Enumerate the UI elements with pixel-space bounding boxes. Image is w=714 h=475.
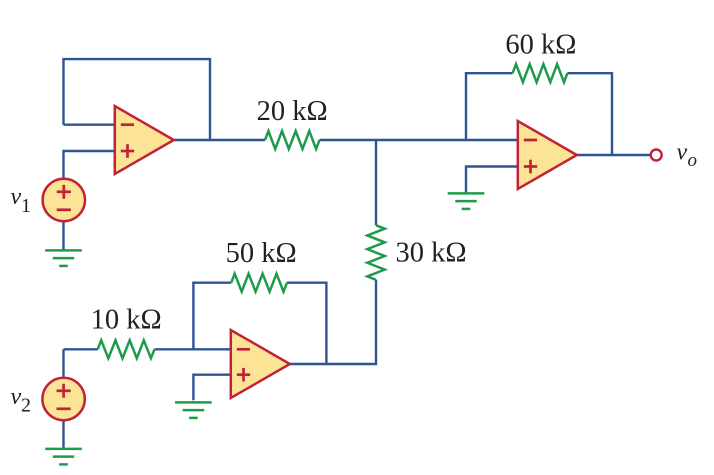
- svg-text:v: v: [11, 384, 22, 410]
- svg-text:30 kΩ: 30 kΩ: [396, 237, 467, 268]
- svg-text:20 kΩ: 20 kΩ: [257, 96, 328, 127]
- svg-text:1: 1: [21, 195, 31, 217]
- svg-text:o: o: [688, 150, 698, 171]
- svg-text:10 kΩ: 10 kΩ: [91, 304, 162, 335]
- svg-text:2: 2: [21, 395, 31, 417]
- svg-text:v: v: [677, 140, 688, 166]
- svg-text:60 kΩ: 60 kΩ: [505, 30, 576, 61]
- svg-text:v: v: [11, 184, 22, 210]
- svg-text:50 kΩ: 50 kΩ: [226, 238, 297, 269]
